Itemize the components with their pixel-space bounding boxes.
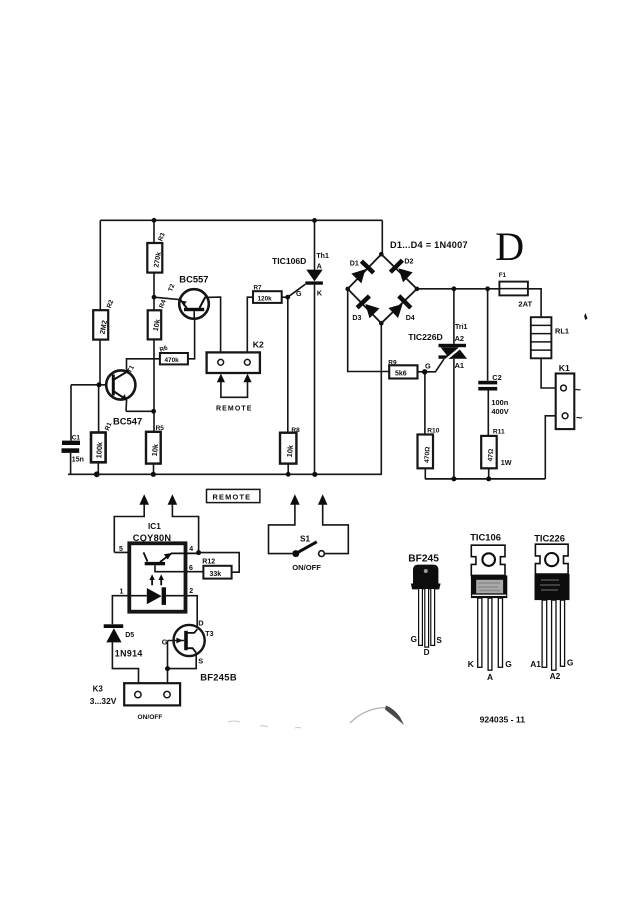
svg-text:K1: K1 xyxy=(559,363,570,373)
S1 open contact xyxy=(319,551,325,557)
svg-text:RL1: RL1 xyxy=(555,327,569,336)
svg-text:5: 5 xyxy=(119,546,123,553)
wire rail corner down to bridge top xyxy=(381,220,383,254)
svg-text:33k: 33k xyxy=(210,571,222,578)
wire T2 right to K2 left pin xyxy=(205,297,221,352)
node T1 emitter / R4-R5 xyxy=(151,409,156,414)
svg-text:A: A xyxy=(317,262,322,271)
transistor T2 BC557 xyxy=(167,273,208,319)
connector K3 xyxy=(90,683,180,721)
svg-text:D2: D2 xyxy=(404,259,413,266)
switch S1 assembly xyxy=(269,494,349,572)
svg-text:G: G xyxy=(411,635,417,644)
resistor R8 xyxy=(280,427,300,464)
svg-text:G: G xyxy=(296,289,302,298)
node C2 top xyxy=(485,286,490,291)
svg-text:D3: D3 xyxy=(352,315,361,322)
resistor R7 xyxy=(253,285,282,303)
node triac A1 rail xyxy=(451,476,456,481)
svg-text:TIC226D: TIC226D xyxy=(408,332,442,342)
svg-text:Tri1: Tri1 xyxy=(455,324,468,331)
resistor R5 xyxy=(146,425,164,464)
package TIC106 TO-220 xyxy=(468,531,512,681)
diode D5 1N914 xyxy=(104,624,143,658)
wire K2 right pin to R7 xyxy=(247,297,253,352)
svg-text:D: D xyxy=(198,619,204,628)
svg-text:REMOTE: REMOTE xyxy=(216,406,253,413)
optocoupler IC1 CQY80N xyxy=(119,522,193,612)
wire R3/R4/R5 column xyxy=(153,220,156,474)
svg-text:R10: R10 xyxy=(427,427,439,434)
wire triac A1 down to right rail xyxy=(453,359,455,479)
node R11 bottom rail xyxy=(486,476,491,481)
IC1 LED xyxy=(128,587,187,605)
resistor R9 xyxy=(388,359,417,378)
svg-text:1N914: 1N914 xyxy=(115,649,143,659)
svg-text:10k: 10k xyxy=(285,444,295,458)
svg-text:ON/OFF: ON/OFF xyxy=(138,714,163,721)
node triac A2 line xyxy=(452,286,457,291)
svg-text:R11: R11 xyxy=(493,428,505,435)
svg-text:G: G xyxy=(425,362,431,371)
node Th1 top xyxy=(312,218,317,223)
wire T1 base line xyxy=(71,384,106,386)
svg-text:TIC226: TIC226 xyxy=(534,532,565,543)
svg-text:470k: 470k xyxy=(165,357,180,364)
thyristor Th1 TIC106D xyxy=(272,253,329,298)
svg-text:3...32V: 3...32V xyxy=(90,696,117,706)
svg-text:G: G xyxy=(567,657,574,667)
svg-text:A2: A2 xyxy=(550,671,561,681)
wire bridge left vertex to R9 xyxy=(348,289,390,372)
svg-text:D: D xyxy=(424,648,430,657)
svg-text:2: 2 xyxy=(189,588,193,595)
resistor R11 xyxy=(481,428,512,468)
resistor R4 xyxy=(148,299,168,340)
resistor R10 xyxy=(418,427,440,468)
svg-text:10k: 10k xyxy=(150,443,160,457)
IC1 light arrows xyxy=(149,574,164,585)
svg-text:R4: R4 xyxy=(158,299,168,310)
svg-text:T3: T3 xyxy=(205,631,213,638)
wire C1 branch xyxy=(70,385,72,475)
S1 arrow right xyxy=(318,494,328,505)
svg-text:K2: K2 xyxy=(253,340,264,350)
svg-text:S: S xyxy=(198,657,203,666)
resistor R1 xyxy=(91,421,114,462)
bridge rectifier diamond xyxy=(348,254,417,323)
wire pin2 to T3 drain xyxy=(187,596,197,627)
node bridge left vertex xyxy=(345,287,350,292)
wire R7 to gate node xyxy=(282,296,288,298)
svg-text:C1: C1 xyxy=(72,434,81,441)
svg-text:1: 1 xyxy=(120,588,124,595)
svg-text:ON/OFF: ON/OFF xyxy=(292,563,321,572)
svg-text:K: K xyxy=(317,289,323,298)
svg-text:1W: 1W xyxy=(501,458,512,467)
node R3 top xyxy=(152,218,157,223)
fuse F1 xyxy=(499,272,533,308)
svg-text:S: S xyxy=(436,636,442,645)
svg-text:D4: D4 xyxy=(406,315,415,322)
IC1 arrow to remote (left) xyxy=(114,494,149,552)
wire R6 right to T2 collector xyxy=(188,319,195,359)
svg-text:K3: K3 xyxy=(93,685,104,694)
wire F1 to RL1 xyxy=(528,289,541,317)
svg-text:BC547: BC547 xyxy=(113,415,142,426)
IC1 arrow to remote (right) xyxy=(168,494,199,552)
wire R9 to triac gate node xyxy=(418,371,425,373)
K2 remote arrows and loop xyxy=(216,374,253,413)
node bridge right vertex xyxy=(415,287,420,292)
svg-text:2AT: 2AT xyxy=(518,299,532,308)
node bridge bottom vertex xyxy=(379,321,384,326)
svg-text:BF245B: BF245B xyxy=(200,672,237,683)
relay coil RL1 xyxy=(531,317,569,358)
svg-text:BC557: BC557 xyxy=(179,273,208,284)
diode D2 xyxy=(389,259,414,283)
svg-text:D1...D4 = 1N4007: D1...D4 = 1N4007 xyxy=(390,240,468,250)
diode D1 xyxy=(350,259,375,283)
S1 lever xyxy=(296,542,317,554)
svg-text:400V: 400V xyxy=(491,407,508,416)
node Th1 cathode rail xyxy=(312,472,317,477)
svg-text:~: ~ xyxy=(575,384,582,396)
svg-text:R12: R12 xyxy=(202,558,215,565)
resistor R12 xyxy=(202,558,231,578)
svg-text:120k: 120k xyxy=(258,295,273,302)
wire bridge right vertex to F1 xyxy=(417,288,500,290)
capacitor C1 xyxy=(62,434,84,463)
wire K1 lower pin to right rail xyxy=(545,416,562,479)
svg-text:Th1: Th1 xyxy=(316,253,329,260)
svg-text:R5: R5 xyxy=(156,425,165,432)
node T1 base / R1-R2 xyxy=(97,382,102,387)
svg-text:IC1: IC1 xyxy=(148,522,161,531)
svg-text:G: G xyxy=(505,659,512,669)
svg-text:BF245: BF245 xyxy=(408,553,439,564)
wire RL1 to K1 upper pin xyxy=(541,358,561,388)
node T3 gate-source xyxy=(165,666,170,671)
svg-text:D5: D5 xyxy=(125,632,134,639)
svg-text:5k6: 5k6 xyxy=(395,371,407,378)
svg-text:A2: A2 xyxy=(455,334,464,343)
resistor R3 xyxy=(147,232,167,273)
wire bottom-right rail xyxy=(425,478,545,480)
svg-text:R8: R8 xyxy=(291,427,300,434)
svg-text:K: K xyxy=(468,659,474,669)
node divider R3/R4 xyxy=(152,295,157,300)
svg-text:D: D xyxy=(495,224,524,269)
svg-text:15n: 15n xyxy=(72,457,84,464)
wire gate node to thyristor gate xyxy=(288,284,306,297)
wire divider junction to T2 xyxy=(154,297,179,299)
resistor R6 xyxy=(159,344,188,364)
svg-text:100k: 100k xyxy=(94,441,104,459)
svg-text:T1: T1 xyxy=(126,364,136,374)
wire C2 branch xyxy=(488,289,489,479)
svg-text:R3: R3 xyxy=(157,232,167,243)
wire triac A2 up to AC line xyxy=(453,289,455,344)
S1 contact dot xyxy=(292,550,299,557)
node pin4/R12 xyxy=(196,550,201,555)
wire thyristor branch xyxy=(314,220,316,474)
svg-text:TIC106D: TIC106D xyxy=(272,256,306,266)
svg-text:C2: C2 xyxy=(492,373,501,382)
REMOTE boxed label xyxy=(207,489,260,502)
wire bridge bottom to bottom rail xyxy=(380,323,382,474)
svg-text:F1: F1 xyxy=(499,272,507,279)
wire T1 emitter to column xyxy=(126,410,154,412)
wire left column (R2/R1 string) xyxy=(98,220,100,474)
ink blot xyxy=(584,313,587,320)
S1 wires xyxy=(269,505,295,554)
JFET T3 BF245B xyxy=(162,619,237,683)
svg-text:A1: A1 xyxy=(455,361,464,370)
wire T3 source to K3 right xyxy=(168,641,197,684)
svg-text:470Ω: 470Ω xyxy=(424,446,432,463)
package TIC226 TO-220 xyxy=(530,532,573,681)
wire D5 to K3 left xyxy=(112,642,138,683)
wire gate node down to R10 xyxy=(424,372,426,479)
IC1 phototransistor xyxy=(144,552,204,571)
svg-text:R7: R7 xyxy=(254,285,263,292)
wire gate node to triac gate xyxy=(425,359,444,372)
svg-text:47Ω: 47Ω xyxy=(487,448,495,462)
svg-text:4: 4 xyxy=(189,546,193,553)
wire top supply rail xyxy=(100,219,382,221)
svg-text:R9: R9 xyxy=(388,359,397,366)
svg-text:G: G xyxy=(162,637,168,646)
svg-text:~: ~ xyxy=(576,412,583,424)
transistor T1 BC547 xyxy=(106,364,142,426)
connector K1 xyxy=(556,363,583,429)
svg-text:R2: R2 xyxy=(106,299,116,310)
svg-text:A1: A1 xyxy=(530,659,541,669)
svg-text:T2: T2 xyxy=(167,283,176,293)
svg-text:CQY80N: CQY80N xyxy=(133,533,172,543)
diode D3 xyxy=(352,294,379,322)
node R5 bottom rail xyxy=(151,472,156,477)
wire gate node down to R8 xyxy=(287,297,289,474)
node R8 bottom rail xyxy=(286,472,291,477)
wire R12 loop to pin4 xyxy=(199,553,240,573)
svg-text:REMOTE: REMOTE xyxy=(213,493,252,502)
node R1 bottom rail xyxy=(94,471,100,477)
svg-text:6: 6 xyxy=(189,565,193,572)
capacitor C2 xyxy=(478,373,508,416)
node bridge top vertex xyxy=(379,252,384,257)
wire T1 collector to R6 xyxy=(127,359,160,370)
scan smudge curve xyxy=(350,707,389,723)
wire bottom-left rail xyxy=(68,473,382,475)
node Th1 gate xyxy=(285,295,290,300)
node triac gate xyxy=(422,369,427,374)
svg-text:D1: D1 xyxy=(350,261,359,268)
svg-text:A: A xyxy=(487,672,493,682)
package BF245 TO-92 xyxy=(408,553,442,657)
connector K2 xyxy=(207,340,264,373)
wire pin5 lead xyxy=(114,551,143,553)
wire pin1 lead xyxy=(112,596,127,625)
S1 arrow left xyxy=(290,494,300,505)
svg-text:S1: S1 xyxy=(300,534,310,543)
resistor R2 xyxy=(93,299,115,340)
svg-text:924035 - 11: 924035 - 11 xyxy=(480,715,526,725)
diode D4 xyxy=(388,294,414,322)
triac Tri1 TIC226D xyxy=(408,324,467,371)
svg-text:TIC106: TIC106 xyxy=(470,531,501,542)
